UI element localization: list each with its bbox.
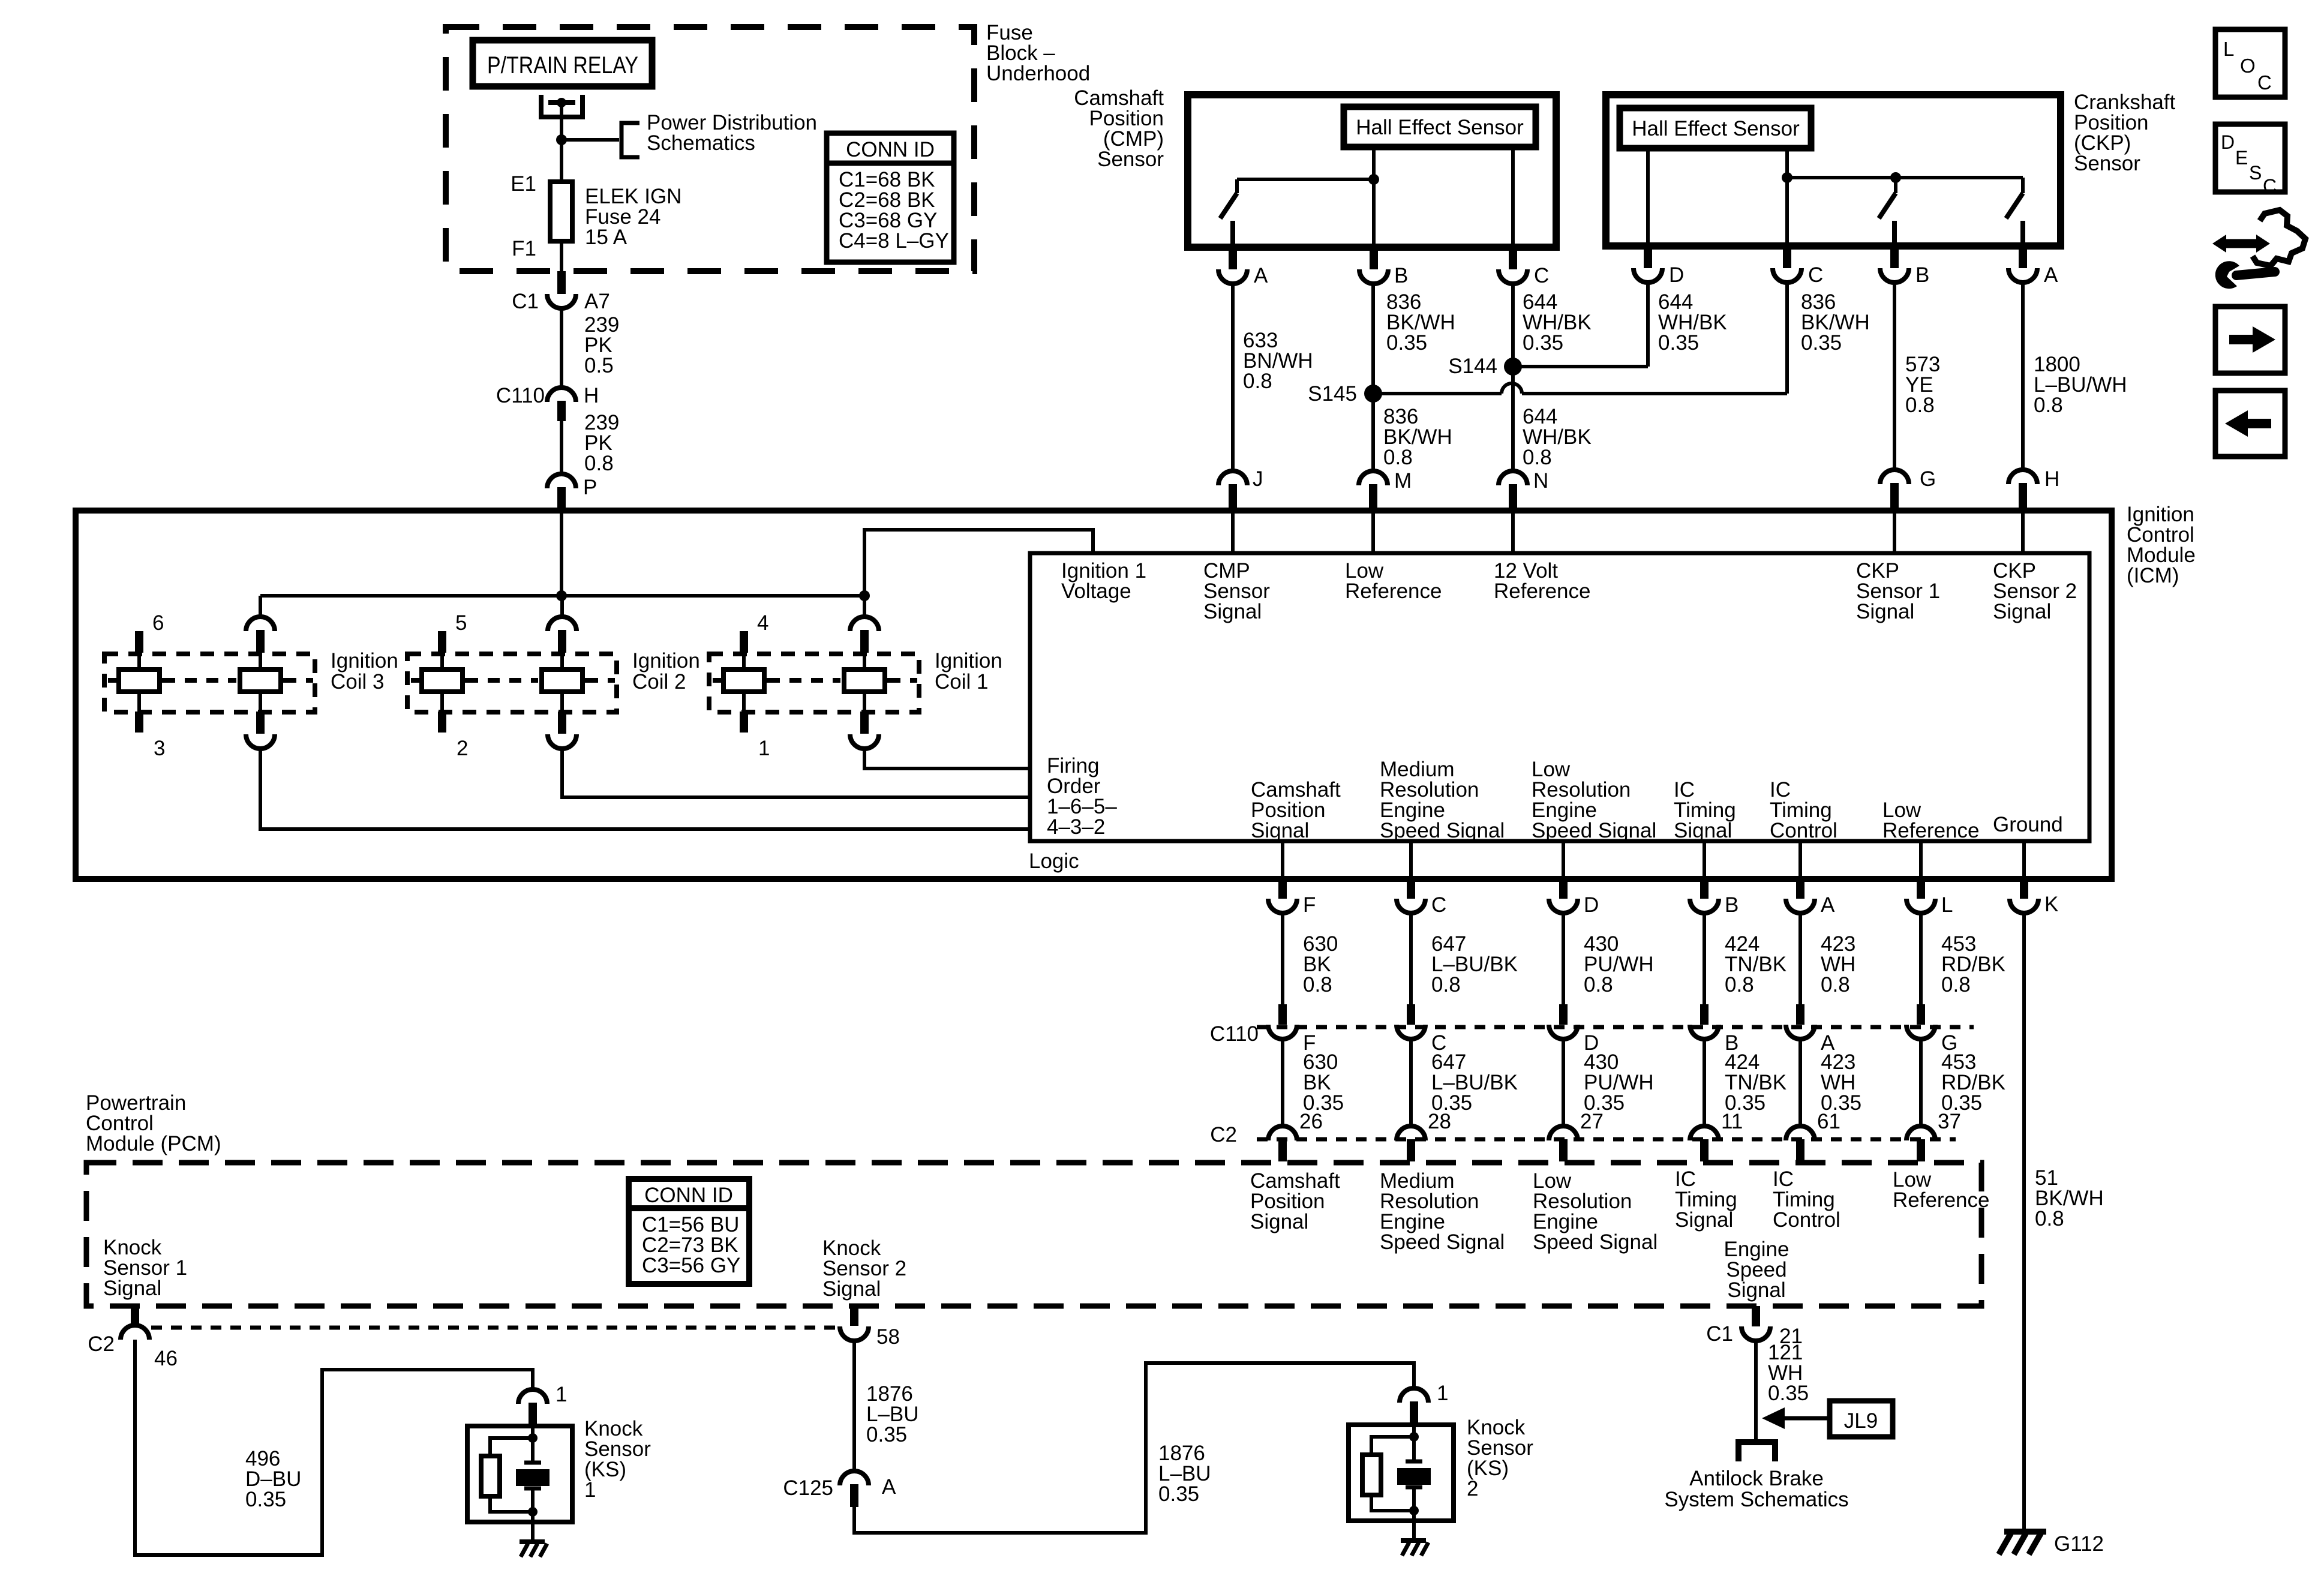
svg-text:C: C	[1431, 893, 1446, 917]
svg-text:Speed Signal: Speed Signal	[1533, 1230, 1658, 1254]
svg-text:C1: C1	[512, 290, 539, 313]
icon box forward arrow	[2215, 307, 2285, 373]
svg-text:O: O	[2240, 55, 2256, 77]
CKP pin C	[1783, 246, 1791, 268]
wire 424 TN/BK 0.8	[1703, 913, 1706, 1004]
svg-text:A: A	[1254, 264, 1268, 287]
svg-text:H: H	[584, 384, 599, 407]
svg-text:Speed Signal: Speed Signal	[1532, 819, 1656, 842]
wire 1800 L-BU/WH 0.8 (A to H)	[2021, 283, 2025, 470]
svg-text:C: C	[1808, 263, 1823, 287]
svg-text:0.8: 0.8	[1821, 973, 1850, 996]
svg-text:27: 27	[1580, 1110, 1604, 1133]
wire 453 RD/BK 0.35	[1919, 1039, 1923, 1126]
connector C2 pin 11	[1690, 1126, 1719, 1140]
CMP switch to pin A	[1237, 178, 1374, 181]
knock sensor KS 1 box	[467, 1426, 572, 1522]
svg-text:0.8: 0.8	[1523, 446, 1552, 469]
CKP switch B	[1890, 172, 1901, 183]
CONN ID table (fuse block)	[827, 133, 954, 262]
svg-text:0.35: 0.35	[866, 1423, 907, 1446]
svg-text:Ground: Ground	[1993, 813, 2063, 836]
svg-text:Signal: Signal	[1675, 1208, 1733, 1232]
wire S144 to CKP pin D	[1513, 365, 1648, 368]
icon box LOC	[2215, 29, 2285, 97]
hall effect sensor box (CKP)	[1620, 108, 1811, 148]
connector C2 pin 27	[1549, 1126, 1578, 1140]
svg-text:0.8: 0.8	[2035, 1207, 2064, 1230]
svg-text:0.8: 0.8	[2034, 394, 2063, 417]
svg-text:0.35: 0.35	[1386, 331, 1427, 355]
svg-text:2: 2	[1467, 1477, 1478, 1500]
wire 496 D-BU 0.35	[135, 1340, 533, 1555]
svg-text:P/TRAIN RELAY: P/TRAIN RELAY	[487, 52, 638, 79]
svg-text:C4=8 L–GY: C4=8 L–GY	[839, 229, 949, 253]
ICM output pin D	[1562, 841, 1565, 879]
svg-text:B: B	[1915, 263, 1929, 287]
wires G H inside ICM	[1893, 511, 1896, 553]
svg-text:Signal: Signal	[1993, 600, 2051, 623]
crankshaft position CKP sensor box	[1606, 95, 2061, 246]
svg-text:B: B	[1394, 264, 1408, 287]
svg-text:G: G	[1920, 467, 1936, 491]
svg-text:Hall Effect Sensor: Hall Effect Sensor	[1356, 116, 1524, 139]
connector C110 pin F	[1278, 1004, 1287, 1025]
svg-text:Coil 1: Coil 1	[935, 670, 988, 694]
CMP pin A	[1229, 247, 1237, 269]
connector C2 pin 37	[1906, 1126, 1935, 1140]
ICM output pin F	[1281, 841, 1284, 879]
svg-text:Underhood: Underhood	[986, 62, 1090, 85]
svg-text:D: D	[1669, 263, 1684, 287]
CKP pin D	[1644, 246, 1652, 268]
svg-text:JL9: JL9	[1844, 1409, 1878, 1433]
coil 3 core dashed line	[108, 678, 118, 683]
svg-text:F: F	[1303, 893, 1316, 917]
wire 644 WH/BK 0.35 (C to S144)	[1511, 284, 1515, 367]
svg-text:1: 1	[556, 1383, 567, 1406]
svg-text:G112: G112	[2054, 1532, 2104, 1556]
svg-text:S145: S145	[1308, 382, 1357, 406]
JL9 arrow	[1785, 1416, 1830, 1421]
ignition control module ICM outer box	[76, 511, 2112, 879]
splice S144	[1504, 358, 1522, 376]
svg-text:4: 4	[757, 611, 768, 635]
svg-text:Signal: Signal	[1251, 819, 1309, 842]
svg-text:C1: C1	[1706, 1322, 1733, 1346]
wire to fuse	[560, 140, 563, 182]
svg-text:0.35: 0.35	[245, 1488, 286, 1511]
svg-text:0.35: 0.35	[1523, 331, 1563, 355]
svg-text:6: 6	[152, 611, 164, 635]
svg-text:0.8: 0.8	[1383, 446, 1413, 469]
connector C110 pin D	[1559, 1004, 1568, 1025]
svg-text:Coil 3: Coil 3	[331, 670, 384, 694]
wire 239 PK 0.5	[560, 308, 563, 388]
svg-text:Reference: Reference	[1893, 1188, 1989, 1212]
knock sensor 2 pin 1	[1400, 1388, 1428, 1403]
icon box back arrow	[2215, 391, 2285, 457]
KS 1 wire to ground	[531, 1512, 535, 1542]
svg-text:Ignition: Ignition	[935, 649, 1002, 673]
KS 2 internal node top	[1412, 1425, 1416, 1437]
svg-text:2: 2	[457, 737, 468, 760]
svg-text:11: 11	[1721, 1110, 1743, 1133]
svg-text:0.8: 0.8	[584, 452, 614, 475]
relay K1 P/TRAIN RELAY box	[473, 40, 652, 86]
camshaft position CMP sensor box	[1188, 95, 1556, 247]
C2 connector dotted line	[1257, 1137, 1956, 1142]
svg-text:S: S	[2249, 162, 2262, 184]
connector C110 pin C	[1407, 1004, 1415, 1025]
ignition 1 voltage rail	[260, 594, 864, 598]
svg-text:C125: C125	[783, 1476, 833, 1500]
wire 573 YE 0.8 (B to G)	[1893, 283, 1896, 470]
connector C1 pin 21	[1752, 1306, 1760, 1326]
connector pin N into ICM	[1499, 471, 1527, 485]
svg-text:Signal: Signal	[1674, 819, 1732, 842]
svg-text:K: K	[2044, 893, 2058, 916]
ICM ground pin K	[2022, 841, 2026, 879]
svg-text:Signal: Signal	[1856, 600, 1914, 623]
CKP internal wire D	[1646, 148, 1650, 246]
svg-text:Ignition: Ignition	[632, 649, 700, 673]
KS 2 wire to ground	[1412, 1511, 1416, 1541]
ignition coil 2 dashed box	[407, 654, 617, 712]
wire 644 WH/BK 0.8 (S144 to N)	[1511, 367, 1515, 471]
svg-text:0.5: 0.5	[584, 354, 614, 377]
CMP internal wire C	[1511, 147, 1515, 247]
CMP internal junction	[1368, 174, 1379, 185]
connector pin J into ICM	[1218, 471, 1247, 485]
svg-text:System Schematics: System Schematics	[1664, 1488, 1848, 1511]
svg-text:CONN ID: CONN ID	[644, 1184, 733, 1207]
svg-text:0.35: 0.35	[1158, 1482, 1199, 1506]
svg-text:Sensor: Sensor	[1097, 148, 1164, 171]
svg-text:0.35: 0.35	[1768, 1382, 1809, 1405]
svg-text:CONN ID: CONN ID	[846, 138, 935, 161]
svg-text:Module (PCM): Module (PCM)	[86, 1132, 221, 1155]
KS 2 ground	[1401, 1538, 1426, 1543]
svg-text:15 A: 15 A	[585, 226, 627, 249]
wire 239 PK 0.8	[560, 421, 563, 474]
svg-text:Ignition: Ignition	[331, 649, 398, 673]
C110 connector dotted line	[1257, 1025, 1974, 1029]
wire 423 WH 0.35	[1798, 1039, 1802, 1126]
svg-text:Reference: Reference	[1494, 580, 1590, 603]
KS 1 internal node top	[531, 1426, 535, 1438]
coil 1 return wire to logic box	[864, 749, 1030, 769]
svg-text:A: A	[2044, 263, 2058, 287]
wire 644 WH/BK 0.35 (D to S144)	[1646, 283, 1650, 367]
off-page reference: Power Distribution Schematics	[621, 123, 639, 157]
svg-text:D: D	[1584, 893, 1599, 917]
knock sensor KS 2 box	[1349, 1425, 1454, 1521]
splice S145	[1364, 385, 1382, 403]
svg-text:37: 37	[1938, 1110, 1961, 1133]
coil 1 primary winding (pins 4/1)	[740, 631, 748, 653]
powertrain control module PCM dashed box	[86, 1163, 1981, 1306]
KS 2 piezo element	[1412, 1437, 1416, 1461]
wire 633 BN/WH 0.8 (A to J)	[1231, 284, 1235, 471]
connector C2 pin 26	[1268, 1126, 1297, 1140]
wire 423 WH 0.8	[1798, 913, 1802, 1004]
CKP pin A	[2019, 246, 2027, 268]
junction node on rail at P	[556, 590, 567, 601]
svg-text:5: 5	[455, 611, 467, 635]
svg-text:B: B	[1725, 893, 1739, 917]
ICM output pin A	[1798, 841, 1802, 879]
coil 2 secondary winding	[560, 596, 564, 618]
KS 1 piezo element	[531, 1438, 535, 1462]
CMP internal wire B	[1372, 147, 1376, 247]
wire from relay	[560, 104, 563, 140]
coil 2 core dashed line	[411, 678, 421, 683]
svg-text:Sensor: Sensor	[2074, 152, 2140, 175]
connector pin H into ICM	[2008, 470, 2037, 484]
connector pin P into ICM	[547, 474, 576, 488]
svg-text:Antilock Brake: Antilock Brake	[1689, 1467, 1824, 1490]
svg-text:C2: C2	[1210, 1123, 1237, 1146]
connector C110 pin B	[1700, 1004, 1709, 1025]
svg-text:Speed Signal: Speed Signal	[1380, 1230, 1505, 1254]
svg-text:Voltage: Voltage	[1061, 580, 1131, 603]
connector C110 pin A	[1796, 1004, 1804, 1025]
connector C2 pin 28	[1397, 1126, 1425, 1140]
ICM output pin L	[1919, 841, 1923, 879]
wire 453 RD/BK 0.8	[1919, 913, 1923, 1004]
svg-text:Control: Control	[1773, 1208, 1840, 1232]
svg-text:P: P	[583, 476, 597, 499]
CKP internal junction on C	[1782, 172, 1792, 183]
ground G112	[2004, 1529, 2046, 1535]
svg-text:Speed Signal: Speed Signal	[1380, 819, 1505, 842]
wire 647 L–BU/BK 0.35	[1409, 1039, 1413, 1126]
wire 1876 L-BU 0.35 (upper)	[852, 1341, 856, 1471]
svg-text:1: 1	[584, 1478, 596, 1502]
relay contact symbol	[541, 95, 582, 117]
coil 3 secondary winding	[259, 596, 262, 618]
wire 121 WH 0.35	[1754, 1341, 1758, 1442]
CKP switch A	[2021, 178, 2025, 193]
svg-text:C2: C2	[88, 1332, 115, 1356]
svg-text:0.35: 0.35	[1658, 331, 1699, 355]
off-page ground bracket to antilock brake schematics	[1739, 1442, 1775, 1461]
svg-text:28: 28	[1428, 1110, 1451, 1133]
KS 1 ground	[520, 1539, 545, 1544]
CMP pin C	[1509, 247, 1517, 269]
svg-text:S144: S144	[1448, 355, 1497, 378]
wire from P into ICM	[560, 511, 563, 596]
svg-text:E: E	[2235, 147, 2248, 169]
svg-text:J: J	[1253, 467, 1263, 491]
svg-text:0.8: 0.8	[1243, 370, 1272, 393]
ICM output pin C	[1409, 841, 1413, 879]
wire 647 L–BU/BK 0.8	[1409, 913, 1413, 1004]
svg-text:E1: E1	[511, 172, 536, 196]
svg-text:(ICM): (ICM)	[2127, 564, 2179, 587]
svg-text:C: C	[1534, 264, 1549, 287]
wire 630 BK 0.35	[1281, 1039, 1284, 1126]
svg-text:H: H	[2044, 467, 2059, 491]
connector pin 58	[850, 1306, 858, 1326]
svg-text:Logic: Logic	[1029, 849, 1079, 873]
svg-text:4–3–2: 4–3–2	[1047, 815, 1105, 839]
KS 2 internal node bottom	[1409, 1506, 1419, 1515]
ICM logic inner box	[1030, 553, 2089, 841]
KS 2 resistor	[1371, 1437, 1414, 1455]
connector C110 pin H	[547, 388, 576, 402]
svg-text:C: C	[2263, 175, 2277, 197]
svg-text:0.8: 0.8	[1941, 973, 1971, 996]
KS 1 internal node bottom	[528, 1507, 538, 1517]
svg-text:L: L	[1941, 893, 1953, 917]
svg-text:N: N	[1533, 469, 1548, 493]
svg-text:1: 1	[758, 737, 770, 760]
wire 630 BK 0.8	[1281, 913, 1284, 1004]
svg-text:Signal: Signal	[1250, 1210, 1308, 1233]
wire 1876 L-BU 0.35 (lower)	[854, 1363, 1414, 1533]
svg-text:0.8: 0.8	[1905, 394, 1935, 417]
svg-text:Reference: Reference	[1882, 819, 1979, 842]
service icon (wrench and arrows)	[2253, 210, 2305, 266]
connector C125 pin A	[840, 1471, 869, 1485]
svg-text:0.8: 0.8	[1584, 973, 1613, 996]
wire S145 to CKP pin C with hop	[1373, 392, 1502, 395]
CKP internal wire C	[1785, 148, 1789, 246]
ignition coil 1 dashed box	[709, 654, 919, 712]
wire 836 BK/WH 0.35 (CKP C to S145)	[1785, 283, 1789, 394]
svg-text:D: D	[2221, 131, 2235, 153]
hall effect sensor box (CMP)	[1344, 107, 1536, 147]
svg-text:A7: A7	[584, 290, 610, 313]
svg-text:0.35: 0.35	[1801, 331, 1842, 355]
svg-text:58: 58	[876, 1325, 900, 1349]
CKP internal feed wire	[1787, 176, 2023, 179]
svg-text:C110: C110	[1210, 1022, 1259, 1046]
connector pin M into ICM	[1359, 471, 1388, 485]
svg-text:M: M	[1394, 469, 1412, 493]
wire rail to Ignition 1 Voltage pin	[864, 530, 1093, 596]
wire 424 TN/BK 0.35	[1703, 1039, 1706, 1126]
svg-text:61: 61	[1817, 1110, 1840, 1133]
wire 836 BK/WH 0.35 (B to S145)	[1371, 284, 1375, 394]
wire 51 BK/WH 0.8 to G112	[2022, 913, 2026, 1532]
svg-text:Reference: Reference	[1345, 580, 1442, 603]
coil 3 return wire to logic box	[260, 749, 1030, 829]
CMP pin B	[1370, 247, 1378, 269]
svg-text:L: L	[2223, 38, 2234, 60]
svg-text:A: A	[882, 1475, 896, 1499]
knock sensor 1 pin 1	[518, 1389, 547, 1404]
junction node on rail at coil 1	[859, 590, 870, 601]
svg-text:Schematics: Schematics	[647, 131, 755, 155]
wires J M N inside ICM	[1231, 511, 1235, 553]
ICM output pin B	[1703, 841, 1706, 879]
KS 1 resistor	[490, 1438, 533, 1456]
svg-text:Coil 2: Coil 2	[632, 670, 686, 694]
fuse block - underhood (dashed box)	[446, 27, 974, 271]
svg-text:A: A	[1821, 893, 1835, 917]
svg-text:Signal: Signal	[1727, 1278, 1785, 1302]
svg-text:1: 1	[1437, 1382, 1448, 1405]
wire 430 PU/WH 0.8	[1562, 913, 1565, 1004]
wire 836 BK/WH 0.8 (S145 to M)	[1371, 394, 1375, 471]
svg-text:Hall Effect Sensor: Hall Effect Sensor	[1632, 117, 1800, 140]
ignition coil 3 dashed box	[104, 654, 315, 712]
wire 430 PU/WH 0.35	[1562, 1039, 1565, 1126]
CONN ID table (PCM)	[629, 1179, 749, 1284]
icon box DESC	[2215, 124, 2285, 192]
svg-text:Control: Control	[1770, 819, 1837, 842]
wire from fuse to connector	[560, 241, 563, 271]
connector C2 pin 46	[131, 1306, 139, 1326]
svg-text:46: 46	[154, 1347, 178, 1370]
svg-text:C110: C110	[496, 384, 545, 407]
coil 2 primary winding (pins 5/2)	[438, 631, 446, 653]
svg-text:0.8: 0.8	[1725, 973, 1754, 996]
svg-text:F1: F1	[512, 237, 536, 260]
connector pin G into ICM	[1880, 470, 1909, 484]
svg-text:0.8: 0.8	[1431, 973, 1461, 996]
svg-text:Signal: Signal	[822, 1277, 881, 1301]
connector C1 pin A7	[557, 271, 566, 294]
coil 1 secondary winding	[863, 596, 866, 618]
off-page JL9 reference box	[1830, 1401, 1893, 1437]
connector C110 pin G	[1917, 1004, 1925, 1025]
connector C2 pin 61	[1786, 1126, 1815, 1140]
coil 1 core dashed line	[713, 678, 722, 683]
svg-text:3: 3	[154, 737, 165, 760]
svg-text:Signal: Signal	[1203, 600, 1262, 623]
svg-text:C: C	[2257, 71, 2272, 94]
CKP pin B	[1890, 246, 1899, 268]
coil 3 primary winding (pins 6/3)	[135, 631, 143, 653]
svg-text:0.8: 0.8	[1303, 973, 1332, 996]
svg-text:Signal: Signal	[103, 1277, 161, 1300]
node junction to power distribution	[556, 134, 567, 145]
svg-text:C3=56 GY: C3=56 GY	[642, 1254, 740, 1277]
C2 pins dotted line	[151, 1326, 840, 1330]
svg-text:26: 26	[1299, 1110, 1323, 1133]
coil 2 return wire to logic box	[562, 749, 1030, 797]
